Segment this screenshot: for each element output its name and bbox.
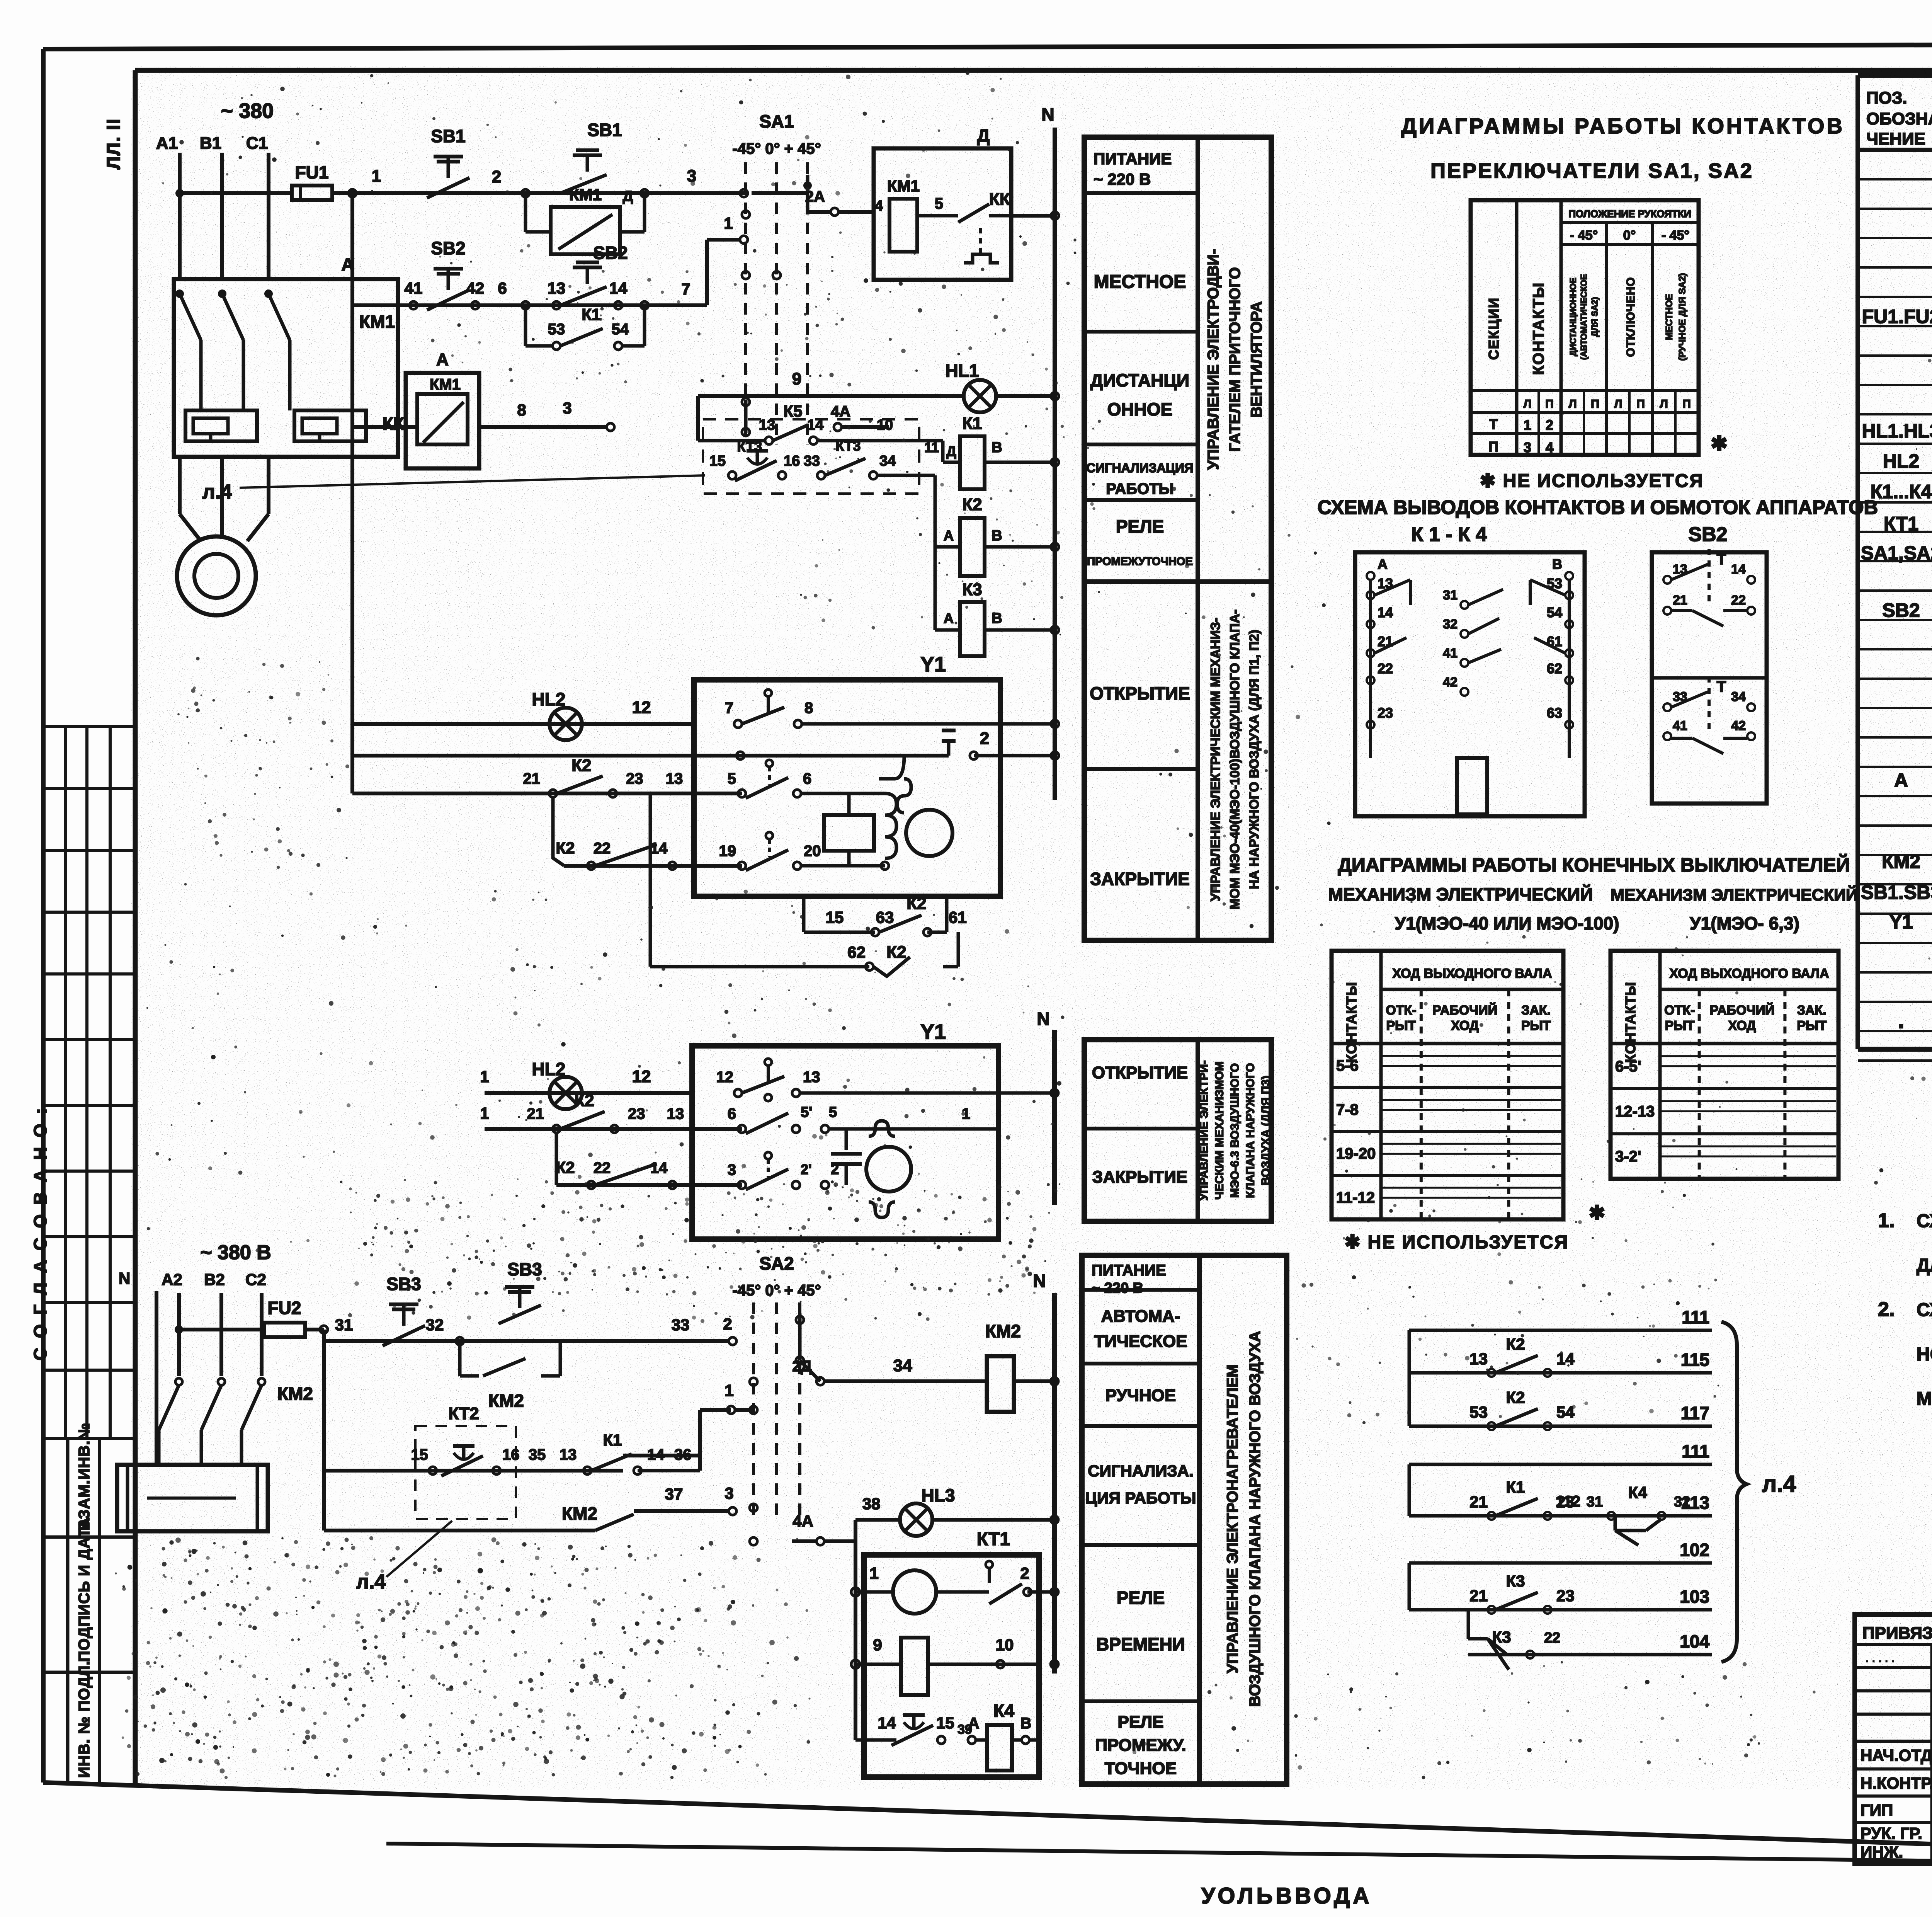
svg-text:С О Г Л А С О В А Н О :: С О Г Л А С О В А Н О : <box>30 1106 50 1360</box>
svg-text:ВЗАМ.ИНВ.№: ВЗАМ.ИНВ.№ <box>76 1423 93 1531</box>
svg-text:РУК. ГР.: РУК. ГР. <box>1861 1824 1922 1842</box>
svg-text:УОЛЬВВОДА: УОЛЬВВОДА <box>1201 1883 1372 1908</box>
svg-text:ИНВ. № ПОДЛ.: ИНВ. № ПОДЛ. <box>76 1661 93 1778</box>
svg-text:ГИП: ГИП <box>1861 1801 1893 1819</box>
svg-text:ПОДПИСЬ И ДАТА: ПОДПИСЬ И ДАТА <box>76 1517 93 1662</box>
svg-text:ЛЛ. II: ЛЛ. II <box>104 118 124 170</box>
svg-text:N: N <box>119 1269 130 1287</box>
